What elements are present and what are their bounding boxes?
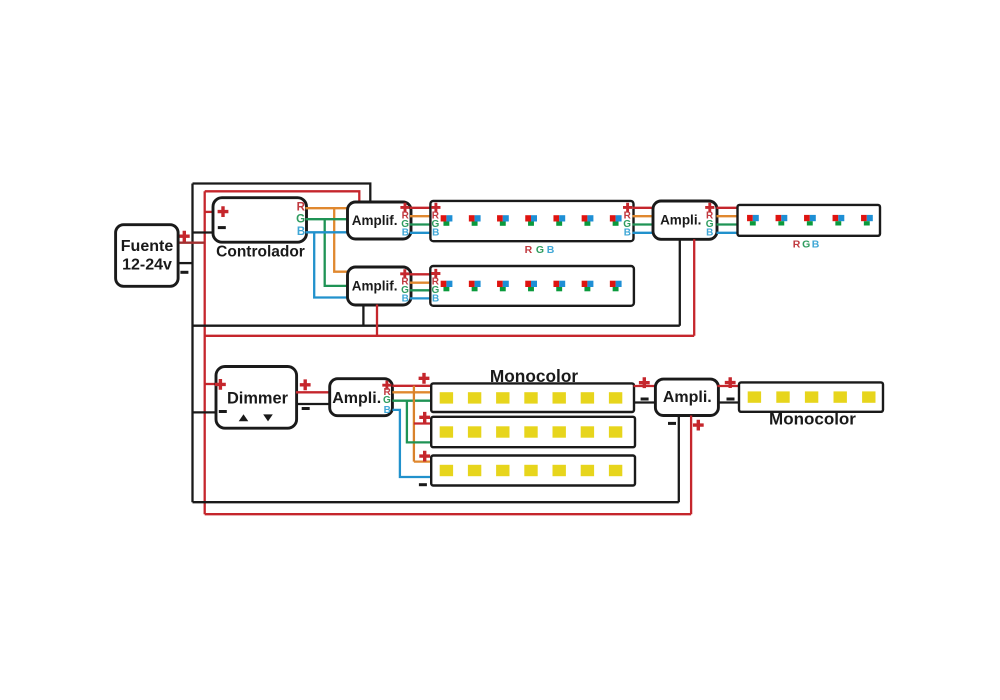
minus symbol Ampli5 supply [668,422,676,425]
svg-text:Dimmer: Dimmer [227,389,289,407]
power supply Fuente 12-24v [116,225,179,287]
plus symbol at Dimmer output [300,379,311,390]
wire green strip1 to Ampli3 [633,223,655,225]
wire black strip A to Ampli5 [634,401,657,403]
svg-text:Monocolor: Monocolor [769,410,856,429]
wire Dimmer minus input [193,411,219,413]
wire black Ampli5 supply down [678,416,680,503]
wire red Ampli5 to strip D [717,385,740,387]
wire B blue Controlador to Amplif1 [306,231,349,233]
svg-text:Ampli.: Ampli. [663,389,712,406]
wire B blue branch to Amplif2 [314,232,348,297]
wire black Ampli3 supply down [679,239,681,325]
wire black bus left vertical [191,184,193,503]
LED strip monocolor A [431,383,634,412]
wire blue strip1 to Ampli3 [633,232,655,234]
wire red Amplif2 supply down [376,305,378,336]
wire orange Ampli3 to strip3 [717,215,739,217]
wire red Ampli5 supply down [690,416,692,515]
LED strip RGB 2 [430,266,634,306]
svg-text:R: R [525,244,533,256]
wire Dimmer minus output [296,403,331,405]
LED strip monocolor C [431,456,635,486]
amplifier U1 Amplif. top [348,202,412,239]
svg-text:B: B [384,405,391,416]
svg-text:Fuente: Fuente [121,238,174,255]
LED strip RGB 3 far right [738,205,881,236]
wire red strip A to Ampli5 [634,385,657,387]
wire Controlador plus input [205,211,215,213]
wire green vertical branch to strip B [407,401,432,443]
wire black Amplif2 supply down [362,305,364,326]
wire orange Amplif2 to strip2 [410,282,432,284]
wire orange stub to strip C plus [414,460,432,462]
svg-text:12-24v: 12-24v [122,256,172,273]
wire green Amplif1 to strip1 [410,223,432,225]
wire G green branch to Amplif2 [325,219,349,286]
wire red bus left vertical [204,191,206,514]
plus symbol Ampli5 to strip D [725,377,736,388]
plus symbol strip A to Ampli5 [639,377,650,388]
svg-text:B: B [432,228,439,239]
svg-text:Ampli.: Ampli. [660,213,701,228]
wire red strip1 to Ampli3 [633,207,655,209]
wire red bottom rail [205,513,691,515]
wire blue Ampli4 B to strip C bottom [392,410,431,477]
wire Dimmer plus input [205,383,218,385]
svg-text:R: R [297,202,306,214]
wire R orange Controlador to Amplif1 [306,207,349,209]
wire black middle rail [193,325,680,327]
svg-text:B: B [624,228,631,239]
label RGB under strip1 [525,244,555,256]
wire green Amplif2 to strip2 [410,289,432,291]
svg-text:Ampli.: Ampli. [332,390,381,407]
wire black bottom rail [193,501,679,503]
amplifier U2 Amplif. second [348,267,412,305]
wire blue Amplif1 to strip1 [410,232,432,234]
svg-text:G: G [536,244,544,256]
minus symbol Ampli5 to strip D [727,398,735,401]
wire black Ampli5 to strip D [717,401,740,403]
plus symbol strip A [419,373,430,384]
wire green Ampli4 G to strip A [392,400,431,402]
wire red stub to strip B plus [414,422,432,424]
amplifier U3 Ampli. top right [653,201,717,239]
wire red Ampli3 to strip3 [717,207,739,209]
minus symbol strip A to Ampli5 [641,398,649,401]
wire orange Amplif1 to strip1 [410,215,432,217]
svg-text:B: B [706,228,713,239]
plus symbol at Fuente output [179,231,190,242]
wire black top rail [193,184,371,204]
LED strip RGB 1 [430,201,633,241]
wire blue Ampli3 to strip3 [717,232,739,234]
plus symbol Ampli5 supply [693,420,704,431]
wire orange vertical branch to strips B and C [413,386,415,462]
wire Dimmer plus output [296,391,331,393]
wire Fuente minus to black bus [178,262,193,264]
plus symbol strip C [419,451,430,462]
svg-text:R: R [793,238,801,250]
wire R orange branch to Amplif2 [334,208,348,272]
wire orange strip1 to Ampli3 [633,215,655,217]
wire red top rail [205,191,360,203]
amplifier U4 Ampli. bottom left [330,379,393,416]
label RGB under strip3 [793,238,820,250]
wire orange Ampli4 R to strip A [392,391,431,393]
svg-text:B: B [297,226,305,238]
svg-text:Amplif.: Amplif. [352,279,398,294]
controller box Controlador [213,198,307,243]
wire Controlador minus input [193,231,216,233]
minus symbol strip C [419,483,427,486]
wire red middle rail [205,335,695,337]
wire blue Amplif2 to strip2 [410,297,432,299]
wire Fuente plus to red bus [178,242,205,244]
minus symbol at Fuente output [180,271,188,274]
wire red Ampli4 plus to strip A [392,385,431,387]
wire G green Controlador to Amplif1 [306,218,349,220]
LED strip monocolor B [431,417,635,447]
svg-text:B: B [402,293,409,304]
dimmer box [215,367,297,429]
minus symbol at Dimmer output [302,407,310,410]
svg-text:G: G [296,213,305,225]
svg-text:B: B [432,294,439,305]
wire red Amplif2 to strip2 [410,273,432,275]
wire red Amplif1 to strip1 [410,207,432,209]
svg-text:B: B [402,228,409,239]
plus symbol strip B [419,412,430,423]
wire green Ampli3 to strip3 [717,223,739,225]
svg-text:Amplif.: Amplif. [352,213,398,228]
wire red Ampli3 supply down [693,239,695,335]
LED strip monocolor D right [739,382,883,411]
svg-text:B: B [812,238,820,250]
svg-text:B: B [547,244,555,256]
svg-text:Controlador: Controlador [216,244,305,261]
amplifier U5 Ampli. bottom right [655,379,718,415]
svg-text:G: G [802,238,810,250]
